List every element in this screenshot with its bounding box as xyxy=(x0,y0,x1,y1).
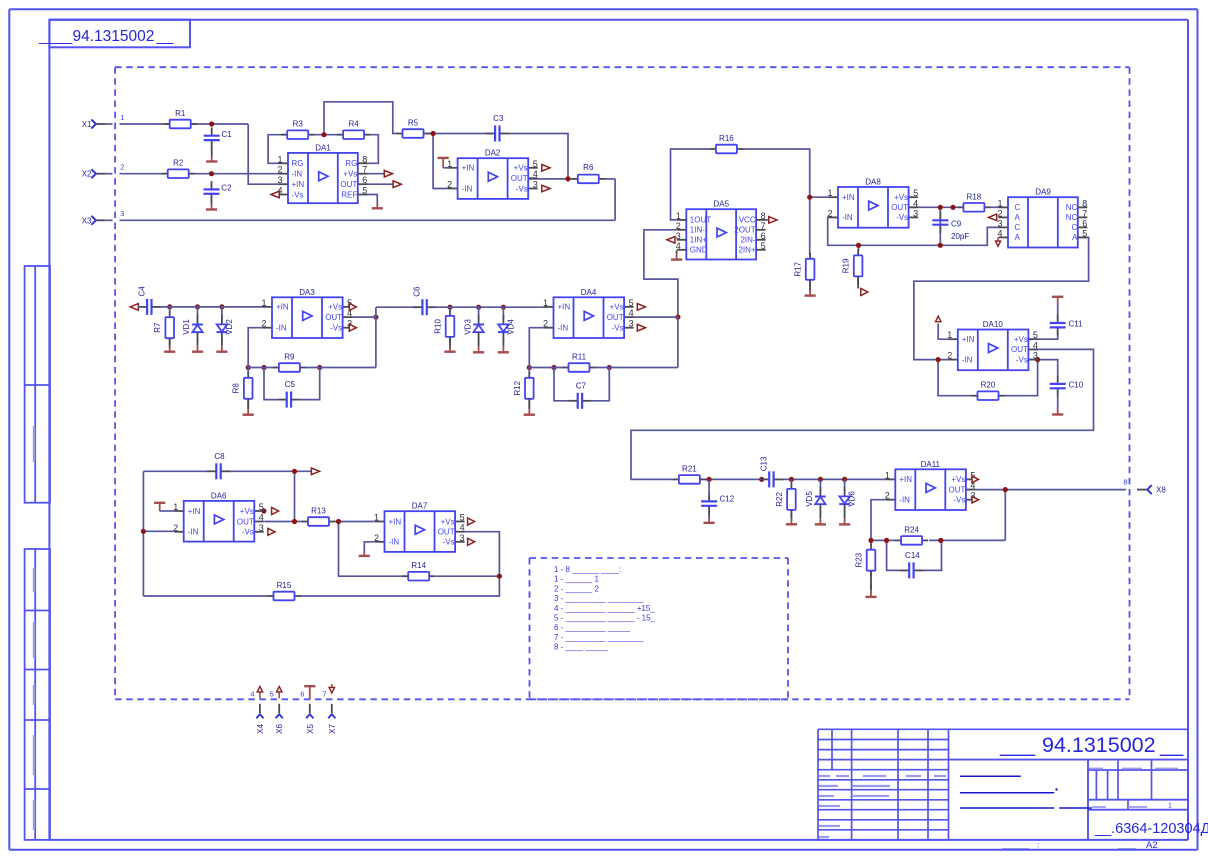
svg-text:+Vs: +Vs xyxy=(441,517,455,526)
svg-text:-Vs: -Vs xyxy=(896,213,908,222)
svg-text:VD5: VD5 xyxy=(805,491,814,507)
svg-text:4 - _________ ______ +15_: 4 - _________ ______ +15_ xyxy=(554,604,655,613)
svg-text:C2: C2 xyxy=(221,184,232,193)
svg-text:-Vs: -Vs xyxy=(953,496,965,505)
svg-text:1: 1 xyxy=(885,470,890,480)
svg-text:C4: C4 xyxy=(137,286,146,297)
svg-text:DA10: DA10 xyxy=(983,320,1004,329)
svg-text:7: 7 xyxy=(362,165,367,175)
svg-text:+IN: +IN xyxy=(389,517,402,526)
svg-text:5: 5 xyxy=(533,159,538,169)
svg-text:C14: C14 xyxy=(905,551,920,560)
svg-text:REF: REF xyxy=(341,190,357,199)
svg-text:8: 8 xyxy=(761,211,766,221)
svg-text:VD4: VD4 xyxy=(507,319,516,335)
svg-text:DA5: DA5 xyxy=(714,200,730,209)
svg-text:R18: R18 xyxy=(967,192,982,201)
svg-text:4: 4 xyxy=(1033,340,1038,350)
svg-text:NC: NC xyxy=(1066,203,1078,212)
svg-text:X7: X7 xyxy=(328,724,337,734)
svg-text:R24: R24 xyxy=(904,525,919,534)
svg-text:6: 6 xyxy=(362,175,367,185)
svg-text:4: 4 xyxy=(997,228,1002,238)
svg-text:R10: R10 xyxy=(434,319,443,334)
svg-text:R17: R17 xyxy=(794,261,803,276)
svg-text:2: 2 xyxy=(885,491,890,501)
svg-text:4: 4 xyxy=(676,241,681,251)
svg-text:3: 3 xyxy=(676,231,681,241)
svg-text:-Vs: -Vs xyxy=(612,324,624,333)
svg-text:4: 4 xyxy=(250,690,254,699)
svg-text:-IN: -IN xyxy=(292,170,303,179)
svg-text:2OUT: 2OUT xyxy=(734,226,755,235)
svg-text:-Vs: -Vs xyxy=(242,528,254,537)
svg-text:X4: X4 xyxy=(256,724,265,734)
svg-text:5: 5 xyxy=(629,298,634,308)
svg-text:6 - _________ _____: 6 - _________ _____ xyxy=(554,623,631,632)
svg-text:1 - 8 ______ ____:: 1 - 8 ______ ____: xyxy=(554,565,621,574)
svg-text:GND: GND xyxy=(690,246,708,255)
svg-text:X5: X5 xyxy=(306,724,315,734)
svg-text:A: A xyxy=(1015,213,1021,222)
svg-text:-Vs: -Vs xyxy=(516,184,528,193)
svg-text:5 - _________ ______ - 15_: 5 - _________ ______ - 15_ xyxy=(554,614,656,623)
svg-text:-IN: -IN xyxy=(842,213,853,222)
svg-text:4: 4 xyxy=(533,169,538,179)
svg-text:+IN: +IN xyxy=(899,475,912,484)
svg-text:C: C xyxy=(1015,203,1021,212)
svg-text:+Vs: +Vs xyxy=(328,303,342,312)
svg-text:-IN: -IN xyxy=(188,528,199,537)
svg-text:R9: R9 xyxy=(284,353,295,362)
svg-text:DA6: DA6 xyxy=(211,491,227,500)
svg-text:A2: A2 xyxy=(1146,840,1158,851)
svg-text:1OUT: 1OUT xyxy=(690,216,711,225)
svg-text:+IN: +IN xyxy=(462,164,475,173)
svg-text:+IN: +IN xyxy=(188,507,201,516)
svg-text:C9: C9 xyxy=(951,220,962,229)
svg-text:___: ___ xyxy=(999,734,1035,757)
svg-text:R19: R19 xyxy=(842,258,851,273)
svg-text:X3: X3 xyxy=(82,216,92,225)
svg-text:5: 5 xyxy=(362,186,367,196)
svg-text:+Vs: +Vs xyxy=(610,303,624,312)
svg-text:3: 3 xyxy=(533,180,538,190)
svg-text:2: 2 xyxy=(676,221,681,231)
svg-text:C13: C13 xyxy=(759,456,768,471)
svg-text:1: 1 xyxy=(543,298,548,308)
svg-text:2IN-: 2IN- xyxy=(740,236,755,245)
svg-text:94.1315002: 94.1315002 xyxy=(73,28,155,45)
svg-text:DA3: DA3 xyxy=(299,288,315,297)
svg-text:OUT: OUT xyxy=(237,517,254,526)
svg-text:+IN: +IN xyxy=(842,193,855,202)
svg-text:VD2: VD2 xyxy=(225,319,234,335)
svg-text:-IN: -IN xyxy=(462,184,473,193)
svg-text:4: 4 xyxy=(259,513,264,523)
svg-text:20pF: 20pF xyxy=(951,232,969,241)
svg-text:2: 2 xyxy=(173,523,178,533)
svg-text:2: 2 xyxy=(374,533,379,543)
svg-text:1: 1 xyxy=(277,154,282,164)
svg-text:OUT: OUT xyxy=(438,528,455,537)
svg-text:__: __ xyxy=(156,28,174,45)
svg-text:__.6364-120304Д: __.6364-120304Д xyxy=(1094,821,1208,837)
svg-text:5: 5 xyxy=(460,513,465,523)
svg-text:3: 3 xyxy=(460,533,465,543)
svg-text:C6: C6 xyxy=(413,286,422,297)
svg-text:2IN+: 2IN+ xyxy=(738,246,755,255)
svg-text:5: 5 xyxy=(761,241,766,251)
svg-text:8 - ____ _____: 8 - ____ _____ xyxy=(554,643,608,652)
svg-text:R14: R14 xyxy=(411,561,426,570)
svg-text:-IN: -IN xyxy=(558,324,569,333)
svg-text:1: 1 xyxy=(997,198,1002,208)
svg-text:3: 3 xyxy=(259,523,264,533)
svg-text:R16: R16 xyxy=(719,134,734,143)
svg-text:DA1: DA1 xyxy=(315,143,331,152)
svg-text:-IN: -IN xyxy=(276,324,287,333)
svg-text:OUT: OUT xyxy=(1011,345,1028,354)
svg-text:C1: C1 xyxy=(222,130,233,139)
svg-text:7: 7 xyxy=(761,221,766,231)
svg-text:8: 8 xyxy=(1123,478,1127,487)
svg-text:OUT: OUT xyxy=(949,485,966,494)
svg-text:1 - ______ 1: 1 - ______ 1 xyxy=(554,575,599,584)
svg-text:X6: X6 xyxy=(275,724,284,734)
svg-text:1: 1 xyxy=(827,188,832,198)
svg-text:R7: R7 xyxy=(153,322,162,333)
svg-text:____: ____ xyxy=(1117,841,1136,850)
svg-text:7 - _________ ________: 7 - _________ ________ xyxy=(554,633,644,642)
svg-text:VD1: VD1 xyxy=(182,319,191,335)
svg-text:R8: R8 xyxy=(232,383,241,394)
svg-text:OUT: OUT xyxy=(607,313,624,322)
svg-text:+Vs: +Vs xyxy=(240,507,254,516)
svg-text:X2: X2 xyxy=(82,170,92,179)
svg-text:____: ____ xyxy=(38,28,73,45)
svg-text:C8: C8 xyxy=(214,452,225,461)
svg-text:94.1315002: 94.1315002 xyxy=(1042,733,1156,757)
svg-text:1: 1 xyxy=(120,113,124,122)
svg-text:6: 6 xyxy=(300,690,304,699)
svg-text:R2: R2 xyxy=(173,159,184,168)
svg-text:4: 4 xyxy=(629,308,634,318)
svg-text:7: 7 xyxy=(1082,208,1087,218)
svg-text:2: 2 xyxy=(947,351,952,361)
svg-text:DA9: DA9 xyxy=(1035,188,1051,197)
svg-text:R6: R6 xyxy=(583,163,594,172)
svg-text:OUT: OUT xyxy=(511,174,528,183)
svg-text:R12: R12 xyxy=(513,380,522,395)
svg-text:C5: C5 xyxy=(285,380,296,389)
svg-text:A: A xyxy=(1015,233,1021,242)
svg-text:1IN-: 1IN- xyxy=(690,226,705,235)
svg-text:__: __ xyxy=(1159,734,1184,757)
svg-text:DA7: DA7 xyxy=(412,502,428,511)
svg-text:3: 3 xyxy=(1033,351,1038,361)
svg-text:4: 4 xyxy=(460,523,465,533)
svg-text:+IN: +IN xyxy=(276,303,289,312)
svg-text:1: 1 xyxy=(261,298,266,308)
svg-text:R15: R15 xyxy=(277,581,292,590)
svg-text:C10: C10 xyxy=(1069,381,1084,390)
svg-text:5: 5 xyxy=(913,188,918,198)
svg-text:X8: X8 xyxy=(1156,486,1166,495)
svg-text:+Vs: +Vs xyxy=(951,475,965,484)
svg-text:1IN+: 1IN+ xyxy=(690,236,707,245)
svg-text:+Vs: +Vs xyxy=(1014,335,1028,344)
svg-text:DA11: DA11 xyxy=(921,460,941,469)
svg-text:R4: R4 xyxy=(348,120,359,129)
svg-text:+Vs: +Vs xyxy=(343,170,357,179)
svg-text:2 - ______ 2: 2 - ______ 2 xyxy=(554,584,599,593)
svg-text:7: 7 xyxy=(322,690,326,699)
svg-text:5: 5 xyxy=(1082,228,1087,238)
svg-text:1: 1 xyxy=(374,513,379,523)
svg-text:C: C xyxy=(1015,223,1021,232)
svg-text:R1: R1 xyxy=(175,109,186,118)
svg-text:A: A xyxy=(1072,233,1078,242)
svg-text:2: 2 xyxy=(447,180,452,190)
svg-text:5: 5 xyxy=(259,502,264,512)
svg-text:R3: R3 xyxy=(293,120,304,129)
svg-text:1: 1 xyxy=(1168,803,1172,810)
svg-text:6: 6 xyxy=(1082,218,1087,228)
svg-text:NC: NC xyxy=(1066,213,1078,222)
svg-text:+IN: +IN xyxy=(558,303,571,312)
svg-text:2: 2 xyxy=(277,165,282,175)
svg-text:3: 3 xyxy=(913,208,918,218)
svg-text:1: 1 xyxy=(947,330,952,340)
svg-text:-Vs: -Vs xyxy=(292,190,304,199)
svg-text:OUT: OUT xyxy=(325,313,342,322)
svg-text:RG: RG xyxy=(292,159,304,168)
svg-text:DA4: DA4 xyxy=(581,288,597,297)
svg-text:2: 2 xyxy=(997,208,1002,218)
svg-text:R20: R20 xyxy=(981,381,996,390)
svg-text:VD6: VD6 xyxy=(848,491,857,507)
svg-text:+Vs: +Vs xyxy=(514,164,528,173)
svg-text:RG: RG xyxy=(345,159,357,168)
svg-text:R23: R23 xyxy=(855,552,864,567)
svg-text:2: 2 xyxy=(120,163,124,172)
svg-text:X1: X1 xyxy=(82,120,92,129)
svg-text:+Vs: +Vs xyxy=(894,193,908,202)
svg-text:-Vs: -Vs xyxy=(1016,355,1028,364)
svg-text:4: 4 xyxy=(913,198,918,208)
svg-text:OUT: OUT xyxy=(340,180,357,189)
svg-text:3: 3 xyxy=(629,319,634,329)
svg-text:8: 8 xyxy=(1082,198,1087,208)
svg-text:VCC: VCC xyxy=(739,216,756,225)
svg-text:OUT: OUT xyxy=(891,203,908,212)
svg-text:R22: R22 xyxy=(775,492,784,507)
svg-text:6: 6 xyxy=(761,231,766,241)
svg-text:1: 1 xyxy=(676,211,681,221)
svg-text:3: 3 xyxy=(277,175,282,185)
svg-text:8: 8 xyxy=(362,154,367,164)
svg-text:-Vs: -Vs xyxy=(443,538,455,547)
svg-text:C: C xyxy=(1072,223,1078,232)
svg-text:5: 5 xyxy=(270,690,274,699)
svg-text:3 - _________ ________: 3 - _________ ________ xyxy=(554,594,644,603)
svg-text:-IN: -IN xyxy=(389,538,400,547)
svg-text:DA8: DA8 xyxy=(865,178,881,187)
svg-text:R11: R11 xyxy=(572,353,587,362)
svg-text:R21: R21 xyxy=(682,464,697,473)
svg-text:+IN: +IN xyxy=(292,180,305,189)
svg-text:+IN: +IN xyxy=(962,335,975,344)
svg-text:3: 3 xyxy=(120,209,124,218)
svg-text:-Vs: -Vs xyxy=(330,324,342,333)
svg-text:R5: R5 xyxy=(408,119,419,128)
svg-text:2: 2 xyxy=(827,208,832,218)
svg-text:3: 3 xyxy=(997,218,1002,228)
svg-text:DA2: DA2 xyxy=(485,149,501,158)
svg-text:C3: C3 xyxy=(493,114,504,123)
svg-text:VD3: VD3 xyxy=(463,319,472,335)
svg-text:C7: C7 xyxy=(576,381,587,390)
svg-text:-IN: -IN xyxy=(962,355,973,364)
svg-text:C11: C11 xyxy=(1069,320,1084,329)
svg-text:5: 5 xyxy=(1033,330,1038,340)
svg-text:-IN: -IN xyxy=(899,496,910,505)
svg-text:R13: R13 xyxy=(311,507,326,516)
svg-text::: : xyxy=(1037,841,1039,850)
svg-text:______: ______ xyxy=(1001,841,1029,850)
svg-text:C12: C12 xyxy=(720,495,735,504)
